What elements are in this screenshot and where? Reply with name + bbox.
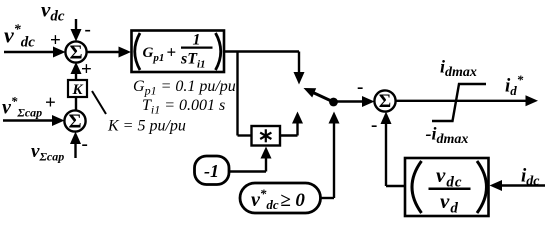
wire vScap* input <box>3 119 55 121</box>
wire sum1 to Gp1 block <box>87 51 120 53</box>
wire from divider output <box>386 185 405 187</box>
wire K to sum1 <box>75 73 77 80</box>
svg-text:+: + <box>45 93 56 114</box>
svg-text:v*dc ≥ 0: v*dc ≥ 0 <box>251 186 305 212</box>
comparator block vdc*>=0 <box>240 183 321 213</box>
svg-text:-: - <box>85 19 91 40</box>
svg-text:-1: -1 <box>204 161 219 181</box>
gain block K <box>68 80 87 97</box>
summing junction S1 <box>65 41 86 62</box>
svg-text:-: - <box>371 115 377 136</box>
wire node to sum3 <box>336 100 364 102</box>
wire vdc* input <box>4 51 55 53</box>
wire riser to switch node <box>333 123 335 198</box>
wire vScap up <box>74 144 76 158</box>
multiplier block * <box>252 126 281 146</box>
switch node <box>329 98 338 107</box>
wire riser to lower contact <box>296 123 298 136</box>
wire Gp1 output <box>224 50 299 52</box>
svg-text:Σ: Σ <box>379 91 391 112</box>
svg-text:+: + <box>167 43 177 62</box>
leader line from K annotation <box>92 91 106 114</box>
wire sum2 to K <box>75 97 77 111</box>
svg-text:K = 5 pu/pu: K = 5 pu/pu <box>107 118 186 135</box>
wire vdc down <box>75 19 77 31</box>
feedforward block vdc/vd <box>405 158 489 216</box>
wire feedback up to sum3 <box>385 123 387 186</box>
wire to switch upper contact <box>298 52 300 74</box>
PI controller block Gp1 <box>132 31 225 73</box>
gain block -1 <box>195 156 230 185</box>
wire idc input <box>500 184 545 186</box>
wire to multiplier left input <box>238 134 252 136</box>
svg-text:-: - <box>82 134 88 155</box>
saturation symbol <box>432 84 486 121</box>
switch arm <box>313 93 334 103</box>
svg-text:+: + <box>81 59 92 80</box>
sum3 output wire <box>396 100 526 102</box>
wire comparator to switch node <box>321 197 335 199</box>
wire -1 to multiplier <box>229 170 266 172</box>
wire multiplier to switch lower contact <box>280 134 298 136</box>
svg-text:Σ: Σ <box>68 111 81 133</box>
svg-text:K: K <box>71 82 83 98</box>
svg-text:-: - <box>357 77 363 98</box>
wire junction drop to multiplier <box>236 52 238 136</box>
svg-text:1: 1 <box>193 32 201 49</box>
summing junction S2 <box>64 110 85 131</box>
summing junction S3 <box>374 90 395 111</box>
svg-text:+: + <box>50 30 61 51</box>
wire riser to multiplier bottom input <box>265 157 267 172</box>
